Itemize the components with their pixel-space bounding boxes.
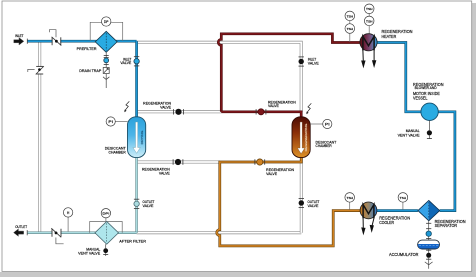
- lightning bolt right tower: [306, 103, 311, 114]
- inlet arrow: [14, 34, 24, 45]
- wire: blue blower outlet down right side to separator: [438, 112, 455, 211]
- valve V1 inlet isolation manual valve: [49, 30, 61, 46]
- svg-text:VALVE: VALVE: [308, 61, 320, 65]
- accumulator: [389, 240, 440, 257]
- svg-text:PI: PI: [108, 120, 113, 124]
- drain trap: [79, 68, 109, 74]
- svg-text:VENT VALVE: VENT VALVE: [78, 252, 101, 256]
- wire: gray outlet line middle: [137, 231, 302, 234]
- after filter F2: [95, 221, 147, 244]
- accumulator drain funnel: [425, 258, 433, 269]
- outlet valve right (closed): [299, 198, 321, 207]
- desiccant chamber right (regenerating): [292, 117, 337, 158]
- svg-text:TSH: TSH: [366, 7, 372, 11]
- after filter manual vent valve: [78, 244, 108, 256]
- DPI gauge bracket: [90, 222, 123, 233]
- svg-text:VALVE: VALVE: [120, 61, 132, 65]
- svg-text:TSH: TSH: [347, 27, 353, 31]
- wire: blue cooler to separator: [376, 209, 418, 212]
- wire: gray regeneration line bottom left: [137, 161, 220, 164]
- desiccant chamber left (drying): [105, 117, 146, 158]
- wire: gray regeneration line top left: [137, 110, 222, 113]
- regeneration valve top-right (open, maroon): [256, 100, 296, 115]
- wire: cyan left tower outlet vertical: [135, 158, 138, 233]
- svg-text:PI: PI: [325, 122, 330, 126]
- accumulator drain valve: [426, 249, 431, 259]
- prefilter F1: [77, 31, 118, 52]
- regeneration valve bottom-right (open, orange): [255, 159, 295, 176]
- svg-text:ACCUMULATOR: ACCUMULATOR: [389, 252, 418, 257]
- svg-text:VALVE: VALVE: [143, 204, 155, 208]
- regeneration valve bottom-left (closed): [142, 159, 183, 176]
- svg-text:SEPARATOR: SEPARATOR: [435, 223, 458, 228]
- svg-text:TSH: TSH: [400, 196, 406, 200]
- svg-text:HEATER: HEATER: [382, 34, 397, 39]
- drain funnel below trap: [103, 74, 109, 88]
- gauge PI right: [310, 119, 332, 128]
- svg-text:TSH: TSH: [347, 196, 353, 200]
- svg-text:PREFILTER: PREFILTER: [77, 47, 97, 51]
- svg-text:DRYING: DRYING: [140, 130, 144, 145]
- svg-text:VALVE: VALVE: [266, 172, 278, 176]
- cooler drain arrows: [362, 218, 374, 233]
- svg-text:CHAMBER: CHAMBER: [109, 151, 127, 155]
- lightning bolt left tower: [124, 101, 129, 112]
- svg-text:DPI: DPI: [102, 212, 109, 216]
- separator drain stem: [428, 221, 430, 240]
- gauge DP: [102, 17, 111, 26]
- svg-text:COOLER: COOLER: [379, 220, 394, 225]
- prefilter drain stem: [105, 52, 107, 67]
- manual vent valve (blower): [398, 121, 432, 139]
- page shadow right band: [472, 3, 476, 273]
- wire: blue left tower inlet vertical: [135, 41, 138, 117]
- DP gauge bracket: [90, 22, 123, 40]
- regeneration blower B1: [413, 82, 444, 121]
- bypass valve: [28, 66, 44, 74]
- svg-text:INLET: INLET: [15, 34, 24, 38]
- svg-text:CHAMBER: CHAMBER: [316, 144, 333, 148]
- wire: gray inlet header to right tower: [137, 42, 302, 112]
- svg-text:VALVE: VALVE: [308, 204, 320, 208]
- svg-text:DRAIN TRAP: DRAIN TRAP: [79, 69, 102, 73]
- page shadow bottom band: [0, 272, 476, 277]
- gauge H: [63, 208, 72, 232]
- regeneration heater H1: [360, 29, 413, 51]
- svg-text:REGENERATING: REGENERATING: [304, 124, 308, 152]
- svg-text:TSH: TSH: [366, 19, 372, 23]
- svg-text:OUTLET: OUTLET: [15, 225, 28, 229]
- separator drain valve (blue): [426, 231, 431, 236]
- outlet valve left (open, cyan): [134, 199, 155, 208]
- regeneration cooler C1: [360, 202, 410, 225]
- inlet valve right (closed): [299, 57, 320, 66]
- wire: gray right tower outlet vertical: [300, 158, 303, 233]
- wire: orange regen return from right tower to cooler with hop: [217, 158, 361, 246]
- svg-text:BLOWER AND: BLOWER AND: [415, 86, 437, 90]
- wire: bypass gray vertical: [38, 41, 41, 233]
- valve V2 outlet manual valve: [51, 228, 63, 244]
- svg-text:VALVE: VALVE: [159, 171, 171, 175]
- inlet valve left (open): [120, 57, 139, 66]
- wire: maroon regen into right tower top: [221, 112, 301, 117]
- wire: cyan outlet line: [27, 230, 136, 235]
- gauge TSH pair left of heater: [345, 11, 355, 42]
- wire: maroon regeneration supply with hop over header: [218, 34, 360, 112]
- svg-text:VALVE: VALVE: [268, 104, 280, 108]
- gauge DPI: [101, 209, 110, 218]
- svg-text:VESSEL: VESSEL: [413, 96, 428, 101]
- heater drain arrows: [362, 51, 376, 67]
- gauge PI left: [106, 117, 127, 126]
- gauge TSH pair above heater: [364, 4, 374, 34]
- svg-text:MANUAL: MANUAL: [406, 129, 420, 133]
- wire: blue inlet main line: [27, 39, 136, 44]
- svg-text:VENT VALVE: VENT VALVE: [398, 134, 421, 138]
- wire: blue heater outlet to blower: [376, 43, 421, 112]
- svg-text:DP: DP: [104, 20, 109, 24]
- svg-text:TSH: TSH: [347, 14, 353, 18]
- outlet arrow: [14, 225, 28, 236]
- svg-text:VALVE: VALVE: [160, 105, 172, 109]
- regeneration valve top-left (closed): [143, 102, 183, 115]
- svg-text:AFTER FILTER: AFTER FILTER: [119, 239, 146, 243]
- prefilter drain valve: [104, 58, 109, 63]
- gauge TSH left of cooler: [345, 193, 355, 210]
- regeneration separator S1: [418, 200, 466, 228]
- gauge TSH right of cooler: [398, 193, 408, 210]
